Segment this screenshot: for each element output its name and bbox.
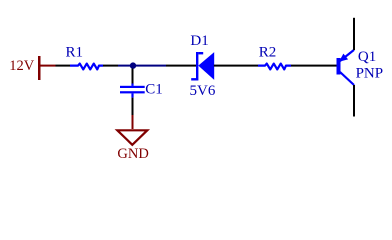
svg-text:R1: R1: [66, 44, 84, 60]
transistor Q1 emitter line: [340, 50, 354, 61]
diode D1 pin 1: [166, 65, 196, 67]
diode D1 triangle: [198, 52, 214, 80]
diode D1 zener bar: [191, 52, 203, 81]
wire R1 to D1: [118, 65, 166, 67]
resistor R2 body: [258, 64, 291, 70]
power port 12V line: [41, 65, 56, 67]
resistor R1 pin 1: [56, 65, 71, 67]
svg-text:GND: GND: [117, 146, 148, 162]
svg-text:5V6: 5V6: [190, 83, 216, 99]
resistor R2 pin 2 and Q1 base pin: [291, 65, 337, 67]
svg-text:D1: D1: [190, 33, 208, 49]
ground triangle: [117, 130, 147, 145]
diode D1 pin 2: [214, 65, 258, 67]
resistor R1 pin 2: [103, 65, 118, 67]
transistor Q1 emitter arrow: [339, 54, 348, 62]
svg-text:Q1: Q1: [358, 49, 376, 65]
transistor Q1 emitter pin: [353, 18, 355, 50]
capacitor C1 pin 2: [132, 98, 134, 115]
ground stem: [132, 115, 134, 129]
capacitor C1 body: [120, 84, 145, 98]
transistor Q1 collector line: [340, 72, 354, 85]
transistor Q1 base bar: [337, 58, 341, 75]
svg-text:C1: C1: [145, 82, 163, 98]
transistor Q1 collector pin: [353, 85, 355, 117]
svg-text:12V: 12V: [9, 58, 35, 74]
junction dot: [130, 62, 136, 68]
resistor R1 body: [70, 64, 103, 70]
svg-text:R2: R2: [259, 44, 277, 60]
capacitor C1 pin 1: [132, 69, 134, 84]
power port 12V bar: [38, 56, 41, 80]
svg-text:PNP: PNP: [356, 66, 384, 82]
